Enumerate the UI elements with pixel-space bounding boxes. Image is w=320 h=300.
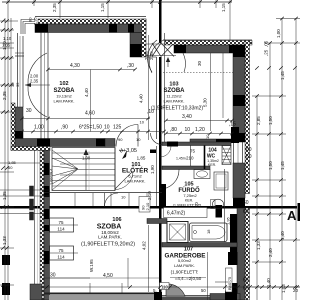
svg-text:4,50: 4,50 (103, 273, 113, 279)
fixture: radiator 2 room 106 (50, 246, 74, 260)
svg-text:,30: ,30 (127, 63, 134, 69)
wall: right exterior window blocks lower (230, 214, 237, 265)
svg-text:1,00*29,4: 1,00*29,4 (50, 169, 54, 185)
svg-text:2,40: 2,40 (268, 248, 273, 257)
wall: WC right pier black (231, 127, 239, 143)
svg-text:1,33: 1,33 (256, 241, 261, 250)
wall: room 102 top wall black lintel left (35, 24, 48, 33)
wall: room 102 corner pier black block (130, 44, 142, 57)
wall: furdo west wall black (162, 184, 167, 207)
door: left unit entry door arc (148, 40, 157, 72)
svg-text:30: 30 (197, 60, 202, 66)
fixture: washbasin bath (194, 170, 210, 179)
svg-text:1,10: 1,10 (3, 36, 12, 41)
svg-text:35: 35 (15, 82, 20, 87)
svg-text:10: 10 (140, 120, 145, 125)
fixture: radiator 1 room 106 (50, 218, 74, 232)
svg-text:2,10: 2,10 (147, 191, 152, 200)
svg-text:LAM.PARK.: LAM.PARK. (174, 263, 195, 268)
svg-text:W.195: W.195 (89, 259, 94, 272)
svg-text:,25: ,25 (264, 49, 269, 56)
svg-text:6,47m2): 6,47m2) (167, 211, 186, 217)
svg-text:60: 60 (243, 286, 249, 292)
svg-text:60: 60 (246, 154, 252, 160)
svg-text:114: 114 (57, 255, 65, 260)
svg-text:LAM.PARK.: LAM.PARK. (53, 99, 74, 104)
wall: room 102 top wall insulation hatch (38, 19, 146, 24)
stair: outline (52, 148, 115, 191)
svg-text:60: 60 (8, 165, 13, 170)
wall: room 102 west window frame lines (40, 33, 42, 140)
wall: shower left wall stub (147, 219, 167, 224)
svg-text:1,00: 1,00 (34, 125, 44, 131)
label: room 102 SZOBA (53, 81, 75, 104)
svg-text:60: 60 (243, 209, 249, 215)
svg-text:1,45: 1,45 (280, 71, 285, 80)
window: right wall window lines (233, 142, 235, 163)
svg-text:(1,90FELETT:: (1,90FELETT: (171, 270, 199, 275)
svg-text:4,40: 4,40 (84, 88, 89, 97)
wall: room 106 bottom wall line (44, 293, 162, 295)
stair: winder fan (52, 150, 78, 169)
wall: radiator black block (44, 251, 50, 257)
svg-text:30: 30 (26, 108, 32, 114)
wall: left exterior wall black block (15, 131, 23, 146)
svg-text:20: 20 (293, 288, 299, 293)
wall: room 102 bottom wall hatch below (11, 147, 50, 151)
label: door size 90/210 box (139, 197, 150, 213)
svg-text:2,35: 2,35 (33, 16, 38, 25)
dim: garderobe vertical line (207, 252, 209, 300)
fixture: washing machine 104 (214, 172, 228, 190)
marker: entry arrow (167, 58, 169, 67)
svg-text:2,35: 2,35 (30, 79, 39, 84)
svg-text:5,30: 5,30 (203, 98, 208, 107)
svg-text:1,45m: 1,45m (176, 157, 186, 161)
svg-text:=4,4..=2|0,50: =4,4..=2|0,50 (175, 276, 202, 281)
wall: wc partition thin (204, 146, 206, 170)
wall: pier black right of 647 box (216, 205, 223, 218)
wall: WC top wall (190, 139, 231, 143)
line: 1,90 felett dashed boundary right unit (163, 72, 233, 74)
section line A horizontal (0, 206, 297, 209)
line: eloter bottom thin line (44, 192, 162, 194)
door: right unit entry door arcs (149, 40, 164, 73)
svg-text:1,33: 1,33 (2, 236, 7, 245)
svg-text:60: 60 (243, 200, 249, 206)
wall: room 102 bottom wall black blocks (37, 139, 50, 147)
door: entry door X leaves left (152, 43, 161, 57)
label: room 101 ELOTER (122, 162, 149, 184)
wall: west window band outer (17, 33, 19, 107)
svg-text:2,10: 2,10 (145, 202, 150, 211)
wall: stair west wall hatch (40, 151, 44, 300)
door: swing arc above partition (151, 133, 163, 145)
svg-text:1,15: 1,15 (221, 3, 226, 12)
fixture: wc shaft striped box (222, 146, 231, 165)
svg-text:1,90: 1,90 (150, 165, 155, 174)
svg-text:90: 90 (118, 137, 123, 142)
wall: room 103 top wall insulation hatch (165, 41, 252, 46)
label: 110 door size box (160, 283, 170, 290)
svg-text:10: 10 (185, 127, 191, 133)
dim texts interior (26, 63, 249, 292)
svg-text:1,20: 1,20 (195, 127, 205, 133)
wall: right exterior wall masonry upper (233, 45, 245, 142)
wall: partition bath/garderobe horizontal (162, 243, 237, 248)
wall: bottom wall masonry right of garderobe (210, 294, 240, 300)
svg-text:1,50: 1,50 (268, 116, 273, 125)
door: eloter south door arc (105, 193, 119, 207)
label: north arrow N (122, 150, 127, 159)
dim: interior 103 lines (166, 120, 232, 122)
wall: right exterior wall hatch lower (245, 208, 250, 300)
wall: left exterior wall masonry (15, 107, 23, 146)
svg-text:1,45: 1,45 (280, 161, 285, 170)
svg-text:3,40: 3,40 (182, 114, 192, 120)
svg-text:(1,90FELETT:10,33m2): (1,90FELETT:10,33m2) (151, 106, 203, 112)
wall: jamb black at party junction (150, 150, 156, 154)
svg-text:105: 105 (184, 182, 193, 188)
wall: room 103 top wall masonry (174, 45, 248, 53)
fixture: shower tray with X (167, 222, 188, 243)
line: bath east thin line (224, 169, 226, 242)
wall: room 102 corner pier hatch (142, 19, 147, 57)
svg-text:103: 103 (169, 82, 178, 88)
label: 6,47m2 box (164, 208, 208, 218)
svg-text:60: 60 (246, 147, 252, 153)
svg-text:4,60: 4,60 (85, 111, 95, 117)
dim: left columns (4, 18, 6, 300)
label: room 103 SZOBA (151, 82, 203, 112)
svg-text:75: 75 (58, 220, 64, 225)
svg-text:4,02: 4,02 (142, 241, 147, 250)
svg-text:106: 106 (112, 217, 121, 223)
svg-text:114: 114 (57, 227, 65, 232)
wall: garderobe bottom wall line (162, 295, 225, 297)
dim texts top (52, 3, 226, 12)
svg-text:10: 10 (121, 195, 126, 200)
svg-text:4,30: 4,30 (70, 63, 80, 69)
line: stair east boundary (114, 148, 116, 191)
dim texts rotated left (2, 36, 39, 245)
line: wc nook left line (190, 146, 192, 167)
dim texts rotated right (256, 29, 299, 293)
wall: room 102 corner pier masonry (130, 33, 142, 58)
door: room 102 west french door lower leaf arc (28, 86, 47, 117)
svg-text:,10: ,10 (147, 109, 154, 115)
svg-text:10: 10 (136, 137, 141, 142)
dim: bottom lines (44, 286, 160, 288)
wall: furdo top wall (162, 166, 210, 170)
door: room 102 west french door upper leaf arc (28, 53, 47, 84)
party wall: thick center vertical line lower (159, 57, 162, 300)
wall: room 103 top wall black blocks (174, 45, 186, 53)
line: party wall west face in eloter (156, 146, 158, 206)
svg-text:210: 210 (186, 156, 194, 161)
wall: right exterior wall black blocks upper (233, 45, 245, 57)
label: room 104 WC (207, 148, 219, 168)
dim: left transfer lines (0, 189, 50, 191)
svg-text:1,15: 1,15 (100, 3, 105, 12)
wall: right exterior wall hatch (245, 41, 250, 194)
svg-text:60: 60 (243, 278, 249, 284)
svg-text:LAM.PARK.: LAM.PARK. (163, 99, 184, 104)
door: entry threshold lines (146, 43, 176, 45)
wall: stair west wall black blocks (44, 163, 50, 175)
svg-text:1,50: 1,50 (268, 161, 273, 170)
svg-text:A: A (287, 208, 297, 223)
svg-text:1,00: 1,00 (82, 156, 91, 161)
svg-text:50: 50 (201, 288, 206, 293)
wall: room 103 top wall outer line (163, 39, 252, 41)
dim: short verticals under stair line (74, 193, 76, 206)
svg-text:7,25m2: 7,25m2 (183, 193, 197, 198)
door: entry door X leaves right (161, 43, 174, 57)
door: garderobe door arc filled (166, 284, 185, 296)
wall: partition 103/104 horizontal (162, 142, 231, 146)
wall: left exterior wall hatch (11, 103, 15, 150)
svg-text:LAM.PARK.: LAM.PARK. (124, 179, 145, 184)
svg-text:102: 102 (59, 81, 68, 87)
svg-text:2,35: 2,35 (149, 51, 154, 60)
line: party wall east thin line (164, 33, 166, 142)
marks: left wall tiny marks (30, 186, 34, 196)
svg-text:1,85: 1,85 (137, 156, 146, 161)
fixture: WC toilet (213, 199, 224, 209)
svg-text:18: 18 (206, 229, 211, 234)
svg-text:2,35: 2,35 (2, 91, 7, 100)
svg-text:LAM.PARK.: LAM.PARK. (98, 235, 122, 240)
door: wall 102/101 door opening arc (116, 125, 138, 147)
svg-text:6*25=1,50: 6*25=1,50 (79, 125, 102, 131)
dim texts mid (84, 60, 210, 272)
svg-text:(1,90FELETT:1,75: (1,90FELETT:1,75 (173, 204, 201, 208)
svg-text:KER.: KER. (208, 163, 216, 167)
dim: interior 102 window line (48, 69, 135, 71)
dim: top chain line (2, 1, 232, 3)
line: door meeting line with arrow (25, 84, 50, 86)
svg-text:30: 30 (50, 273, 56, 279)
svg-text:4,40: 4,40 (139, 94, 144, 103)
svg-text:2,35: 2,35 (52, 3, 57, 12)
stair: walk line with arrow (85, 151, 87, 190)
svg-text:BM1,75: BM1,75 (228, 277, 232, 290)
wall: room 102 top wall masonry (35, 24, 146, 33)
label: room 106 SZOBA (81, 217, 135, 248)
svg-text:75: 75 (190, 149, 196, 154)
label: room 107 GARDEROBE (165, 247, 206, 282)
svg-text:,90: ,90 (61, 125, 68, 131)
dim: eloter vertical lines with texts (148, 35, 150, 140)
stair: horizontal treads (52, 152, 115, 154)
door: stair to eloter door (115, 172, 132, 189)
svg-text:(1,90FELETT:9,20m2): (1,90FELETT:9,20m2) (81, 242, 135, 248)
door: bathroom main door arc (160, 170, 179, 189)
wall: room 102 bottom wall masonry (15, 139, 105, 147)
svg-text:75: 75 (58, 248, 64, 253)
wall: room 102 top wall outer line (35, 16, 146, 18)
wall: stair west wall masonry (44, 151, 50, 300)
svg-text:+3,05: +3,05 (123, 148, 137, 154)
dim: room 102 vertical mid line (90, 70, 92, 132)
fixture: narrow box BM (226, 268, 233, 292)
fixture: bathtub (190, 223, 228, 242)
marks: far bottom-left black marks (2, 255, 10, 265)
wall: right exterior wall masonry lower (237, 208, 245, 300)
door: bathroom nook small arc (160, 146, 171, 157)
svg-text:10: 10 (104, 125, 110, 131)
svg-text:1,00: 1,00 (276, 29, 281, 38)
dim: room 103 vertical mid line (210, 53, 212, 131)
svg-text:1,35: 1,35 (2, 43, 11, 48)
wall: eloter south wall stub (105, 139, 115, 147)
line: room 102 east boundary thin (156, 57, 158, 139)
line: room 106 west face lines (34, 151, 36, 293)
svg-text:2,85: 2,85 (256, 116, 261, 125)
svg-text:KER.: KER. (185, 199, 193, 203)
svg-text:,05: ,05 (264, 40, 269, 47)
svg-text:,15: ,15 (229, 122, 236, 128)
party wall: thick center vertical line upper (159, 0, 162, 43)
svg-text:125: 125 (113, 125, 122, 131)
wall: room 102 top wall black lintel mid (109, 24, 117, 33)
dim: right columns (256, 96, 258, 300)
wall: right exterior wall masonry mid (233, 163, 245, 198)
dim: 4,50 tick vertical (127, 258, 129, 287)
wall: party wall bottom black (154, 292, 162, 300)
svg-text:1,35: 1,35 (2, 191, 7, 200)
label: room 105 FURDO (173, 182, 201, 208)
wall: bottom-left pier room 106 (30, 284, 42, 300)
corner: top-left telescoping lines (21, 20, 35, 35)
svg-text:,80: ,80 (170, 127, 177, 133)
